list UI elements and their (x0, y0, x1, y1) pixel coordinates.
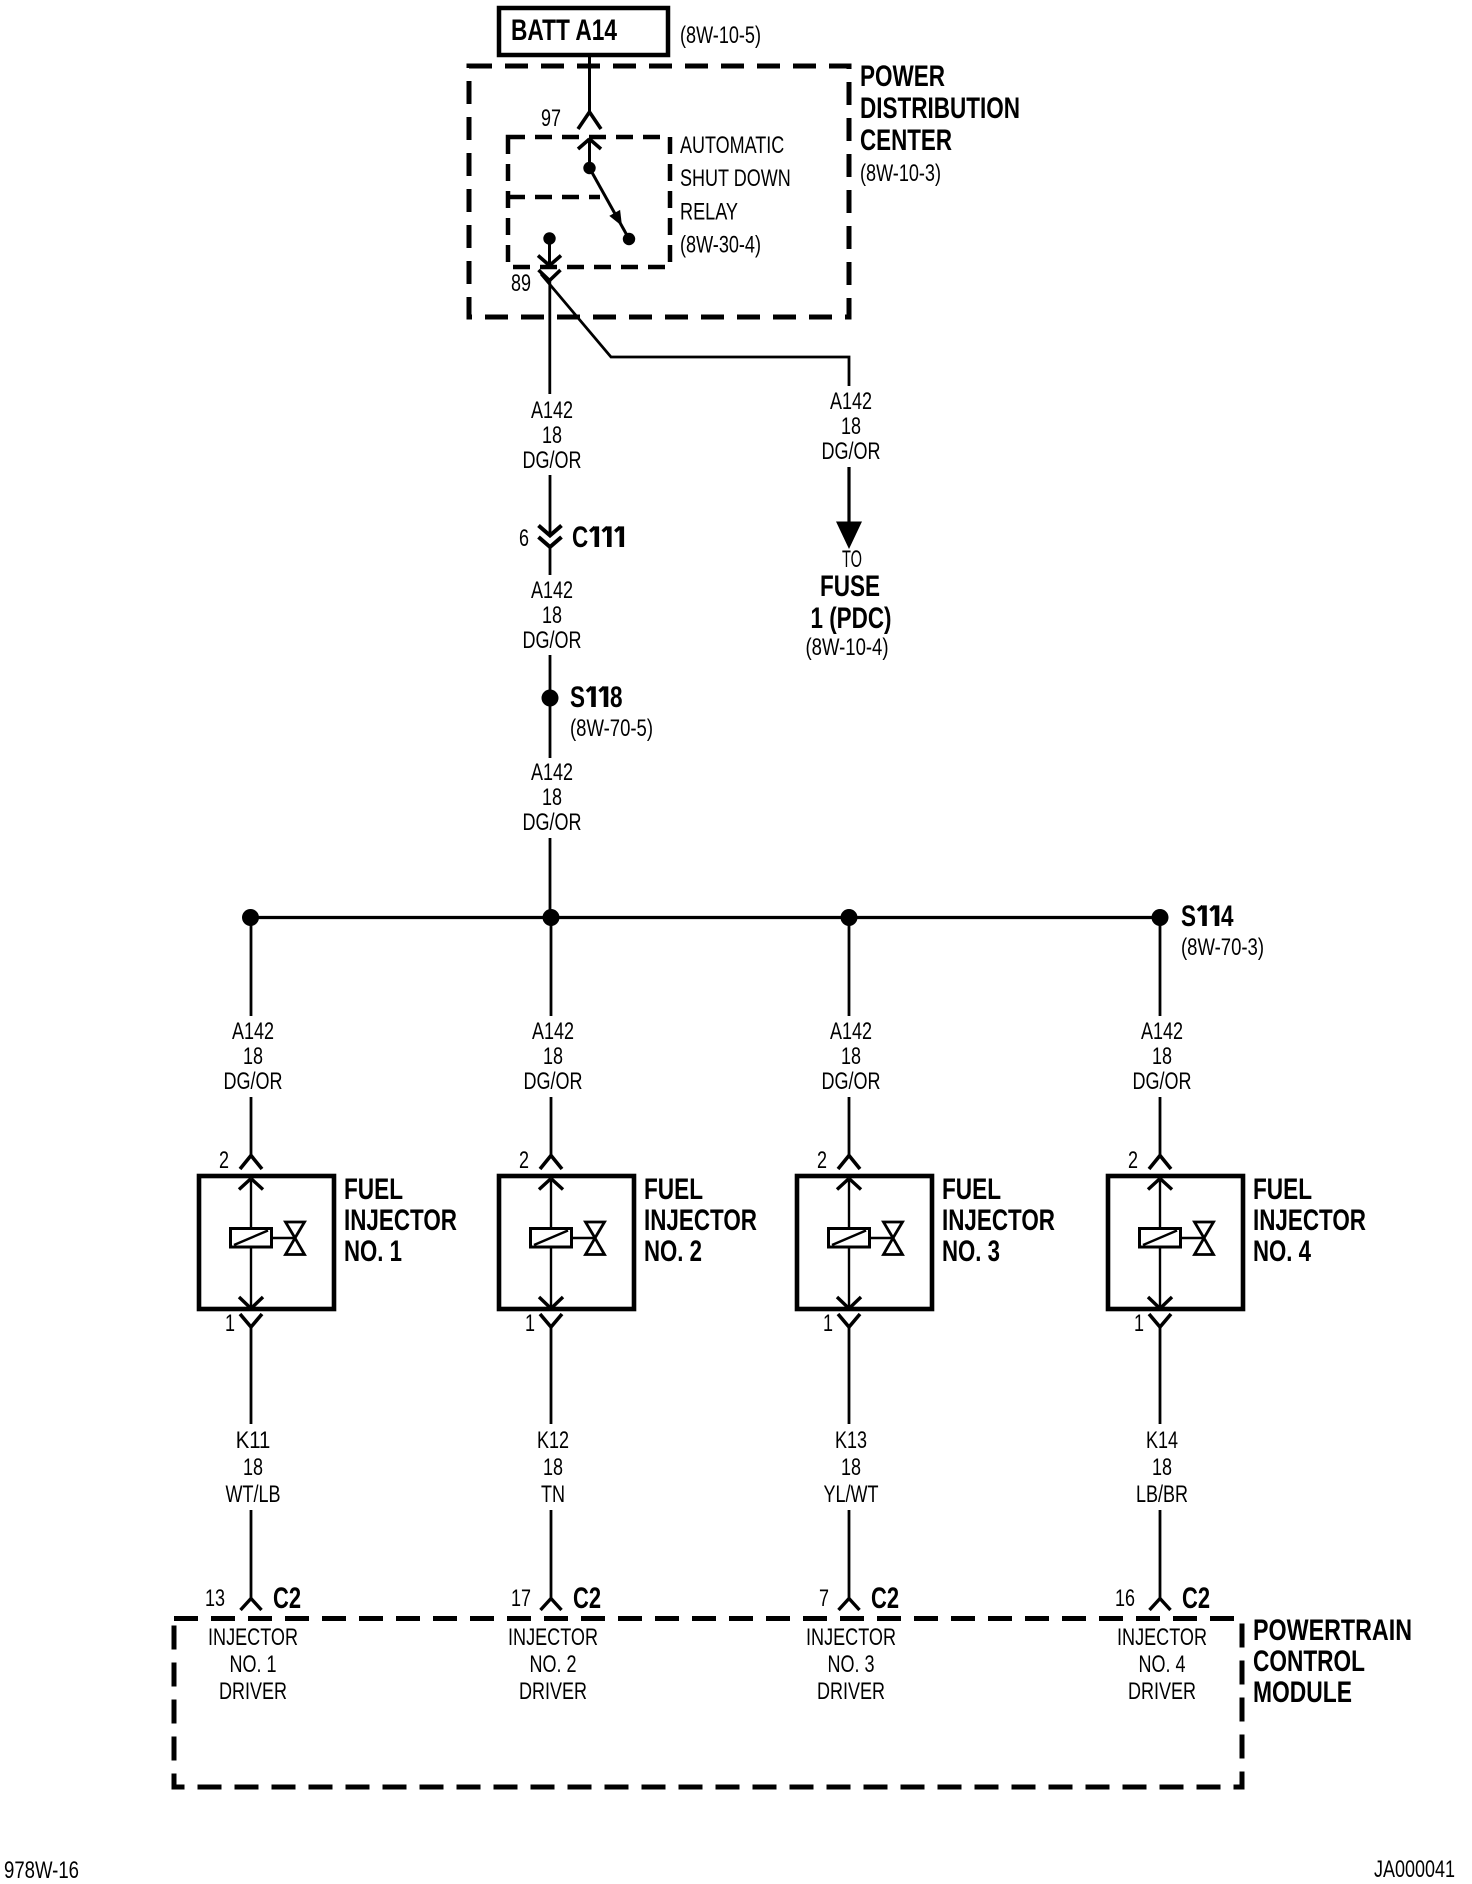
svg-text:NO. 1: NO. 1 (344, 1235, 402, 1268)
relay output terminal to pin 89 (arrow down) (538, 232, 561, 265)
arrow to fuse 1 (PDC) (836, 467, 862, 549)
injector 3 nozzle valve symbol (870, 1222, 903, 1255)
wire label A142 18 DG/OR (injector 2 branch) (524, 1018, 583, 1095)
svg-text:INJECTOR: INJECTOR (344, 1204, 457, 1237)
fuel injector 1 box (199, 1176, 334, 1309)
page number 978W-16 (4, 1857, 79, 1884)
fuel injector 2 box (499, 1176, 634, 1309)
svg-text:DG/OR: DG/OR (224, 1068, 283, 1095)
wire label K14 18 LB/BR (1136, 1427, 1188, 1508)
svg-text:(8W-30-4): (8W-30-4) (680, 232, 761, 259)
splice S118 (542, 681, 623, 714)
svg-text:(8W-10-5): (8W-10-5) (680, 22, 761, 49)
svg-text:FUEL: FUEL (344, 1173, 403, 1206)
svg-text:S: S (1181, 900, 1196, 933)
label INJECTOR NO. 3 DRIVER (806, 1624, 896, 1705)
svg-text:NO. 3: NO. 3 (942, 1235, 1000, 1268)
injector 2 internal pin arrow (down) (539, 1247, 563, 1309)
svg-text:NO. 2: NO. 2 (530, 1651, 577, 1678)
svg-text:6: 6 (519, 525, 529, 552)
svg-text:2: 2 (519, 1147, 529, 1174)
injector 2 nozzle valve symbol (572, 1222, 605, 1255)
wire segment to PCM connector C2 pin 17 (550, 1510, 553, 1599)
label INJECTOR NO. 4 DRIVER (1117, 1624, 1207, 1705)
svg-text:NO. 1: NO. 1 (230, 1651, 277, 1678)
svg-text:NO. 4: NO. 4 (1139, 1651, 1186, 1678)
svg-text:A142: A142 (830, 1018, 872, 1045)
svg-text:(8W-10-3): (8W-10-3) (860, 160, 941, 187)
svg-text:POWERTRAIN: POWERTRAIN (1253, 1614, 1412, 1647)
wire segment below S118 (549, 706, 552, 758)
injector 1 nozzle valve symbol (272, 1222, 305, 1255)
svg-text:CENTER: CENTER (860, 124, 952, 157)
svg-text:A142: A142 (232, 1018, 274, 1045)
injector 1 pin 1 connector (female) (225, 1310, 262, 1337)
svg-text:7: 7 (819, 1585, 829, 1612)
svg-text:DRIVER: DRIVER (519, 1678, 587, 1705)
svg-text:1: 1 (823, 1310, 833, 1337)
svg-text:18: 18 (543, 1043, 563, 1070)
svg-text:1: 1 (225, 1310, 235, 1337)
svg-text:A142: A142 (531, 397, 573, 424)
label S114 (8W-70-3) (1181, 900, 1264, 961)
svg-text:TO: TO (842, 546, 862, 573)
wire label A142 18 DG/OR (injector 1 branch) (224, 1018, 283, 1095)
wire segment above C111 (549, 475, 552, 535)
wire A142 bus to injector 4 (1159, 918, 1162, 1017)
svg-text:DRIVER: DRIVER (1128, 1678, 1196, 1705)
svg-text:C: C (572, 521, 588, 554)
svg-text:YL/WT: YL/WT (824, 1481, 879, 1508)
wire K13 from injector 3 (848, 1327, 851, 1424)
injector 4 internal pin arrow (down) (1148, 1247, 1172, 1309)
junction dot col 2 (543, 909, 560, 926)
connector C2 pin 16 (female) (1115, 1582, 1210, 1615)
label FUEL INJECTOR NO. 2 (644, 1173, 757, 1268)
injector 1 internal pin arrow (up) (239, 1179, 263, 1229)
svg-text:DG/OR: DG/OR (523, 809, 582, 836)
wire segment to injector 4 pin 2 (1159, 1097, 1162, 1155)
svg-text:NO. 2: NO. 2 (644, 1235, 702, 1268)
svg-text:18: 18 (543, 1454, 563, 1481)
svg-text:K12: K12 (537, 1427, 569, 1454)
svg-text:A142: A142 (531, 577, 573, 604)
svg-text:FUEL: FUEL (1253, 1173, 1312, 1206)
svg-text:INJECTOR: INJECTOR (644, 1204, 757, 1237)
connector C2 pin 7 (female) (819, 1582, 899, 1615)
relay internal divider (dashed) (508, 195, 600, 200)
wire segment to injector 2 pin 2 (550, 1097, 553, 1155)
reference (8W-70-5) (570, 715, 653, 742)
svg-text:18: 18 (1152, 1043, 1172, 1070)
label INJECTOR NO. 2 DRIVER (508, 1624, 598, 1705)
power distribution center dashed box (469, 66, 849, 317)
svg-text:POWER: POWER (860, 60, 945, 93)
injector 4 pin 2 connector (female) (1128, 1147, 1171, 1174)
injector 2 internal pin arrow (up) (539, 1179, 563, 1229)
svg-text:18: 18 (542, 784, 562, 811)
svg-text:BATT A14: BATT A14 (511, 14, 617, 47)
svg-text:18: 18 (841, 1043, 861, 1070)
powertrain control module dashed box (174, 1619, 1242, 1788)
svg-text:2: 2 (817, 1147, 827, 1174)
svg-text:DISTRIBUTION: DISTRIBUTION (860, 92, 1020, 125)
svg-text:DG/OR: DG/OR (822, 1068, 881, 1095)
reference (8W-10-5) (680, 22, 761, 49)
svg-text:(8W-70-5): (8W-70-5) (570, 715, 653, 742)
svg-text:18: 18 (542, 602, 562, 629)
svg-text:A142: A142 (830, 388, 872, 415)
svg-text:2: 2 (219, 1147, 229, 1174)
wire label A142 18 DG/OR (fuse branch) (822, 388, 881, 465)
injector 1 pin 2 connector (female) (219, 1147, 262, 1174)
svg-text:18: 18 (1152, 1454, 1172, 1481)
wire segment below C111 (549, 547, 552, 575)
svg-text:INJECTOR: INJECTOR (508, 1624, 598, 1651)
wire segment to injector 1 pin 2 (250, 1097, 253, 1155)
relay automatic shut down relay dashed box (508, 137, 670, 267)
injector 3 solenoid coil (829, 1229, 870, 1248)
svg-text:1: 1 (525, 1310, 535, 1337)
svg-text:DG/OR: DG/OR (523, 447, 582, 474)
label POWERTRAIN CONTROL MODULE (1253, 1614, 1412, 1709)
svg-text:AUTOMATIC: AUTOMATIC (680, 132, 784, 159)
wire segment to injector 3 pin 2 (848, 1097, 851, 1155)
svg-text:1: 1 (1134, 1310, 1144, 1337)
wire A142 bus to injector 1 (250, 918, 253, 1017)
svg-text:S: S (570, 681, 585, 714)
svg-text:A142: A142 (1141, 1018, 1183, 1045)
svg-text:K13: K13 (835, 1427, 867, 1454)
svg-text:NO. 4: NO. 4 (1253, 1235, 1311, 1268)
injector 2 pin 1 connector (female) (525, 1310, 562, 1337)
connector C2 pin 17 (female) (511, 1582, 601, 1615)
svg-text:WT/LB: WT/LB (226, 1481, 281, 1508)
svg-text:2: 2 (1128, 1147, 1138, 1174)
wire K14 from injector 4 (1159, 1327, 1162, 1424)
relay switch blade with arrowhead (590, 168, 629, 238)
svg-text:INJECTOR: INJECTOR (208, 1624, 298, 1651)
injector 1 internal pin arrow (down) (239, 1247, 263, 1309)
svg-text:FUSE: FUSE (820, 570, 880, 603)
injector 3 internal pin arrow (down) (837, 1247, 861, 1309)
injector 4 nozzle valve symbol (1181, 1222, 1214, 1255)
svg-text:C2: C2 (573, 1582, 601, 1615)
svg-text:INJECTOR: INJECTOR (806, 1624, 896, 1651)
label TO FUSE 1 (PDC) (8W-10-4) (806, 546, 892, 661)
label FUEL INJECTOR NO. 1 (344, 1173, 457, 1268)
svg-text:FUEL: FUEL (644, 1173, 703, 1206)
wire label A142 18 DG/OR (between C111 and S118) (523, 577, 582, 654)
injector 4 internal pin arrow (up) (1148, 1179, 1172, 1229)
svg-text:18: 18 (841, 413, 861, 440)
svg-text:K11: K11 (236, 1427, 271, 1454)
label INJECTOR NO. 1 DRIVER (208, 1624, 298, 1705)
svg-text:978W-16: 978W-16 (4, 1857, 79, 1884)
label FUEL INJECTOR NO. 4 (1253, 1173, 1366, 1268)
connector C2 pin 13 (female) (205, 1582, 301, 1615)
wire label A142 18 DG/OR (injector 3 branch) (822, 1018, 881, 1095)
svg-text:FUEL: FUEL (942, 1173, 1001, 1206)
svg-text:C2: C2 (871, 1582, 899, 1615)
svg-text:C2: C2 (273, 1582, 301, 1615)
svg-text:A142: A142 (531, 759, 573, 786)
wire label K13 18 YL/WT (824, 1427, 879, 1508)
svg-text:DRIVER: DRIVER (817, 1678, 885, 1705)
injector 1 solenoid coil (231, 1229, 272, 1248)
svg-text:INJECTOR: INJECTOR (1117, 1624, 1207, 1651)
svg-text:97: 97 (541, 105, 561, 132)
connector BATT A14 fused B(+) feed box (499, 8, 668, 55)
drawing number JA000041 (1374, 1856, 1455, 1883)
svg-text:DG/OR: DG/OR (822, 438, 881, 465)
label POWER DISTRIBUTION CENTER (8W-10-3) (860, 60, 1020, 187)
splice bus wire S114 (horizontal) (251, 916, 1161, 919)
svg-text:1 (PDC): 1 (PDC) (811, 602, 892, 635)
wire label A142 18 DG/OR (injector 4 branch) (1133, 1018, 1192, 1095)
wire segment to PCM connector C2 pin 7 (848, 1510, 851, 1599)
svg-text:A142: A142 (532, 1018, 574, 1045)
svg-text:DG/OR: DG/OR (523, 627, 582, 654)
wire A142 bus to injector 2 (550, 918, 553, 1017)
svg-text:(8W-70-3): (8W-70-3) (1181, 934, 1264, 961)
wire A142 main from pin 89 down (548, 281, 551, 395)
svg-text:DG/OR: DG/OR (524, 1068, 583, 1095)
junction dot col 3 (841, 909, 858, 926)
svg-text:17: 17 (511, 1585, 531, 1612)
svg-text:89: 89 (511, 270, 531, 297)
injector 4 pin 1 connector (female) (1134, 1310, 1171, 1337)
injector 3 internal pin arrow (up) (837, 1179, 861, 1229)
wire segment down to splice bus (549, 838, 552, 918)
svg-text:SHUT DOWN: SHUT DOWN (680, 165, 791, 192)
wire label K12 18 TN (537, 1427, 569, 1508)
svg-text:JA000041: JA000041 (1374, 1856, 1455, 1883)
wire segment to PCM connector C2 pin 16 (1159, 1510, 1162, 1599)
wire BATT A14 to pin 97 (588, 57, 591, 112)
svg-text:CONTROL: CONTROL (1253, 1645, 1365, 1678)
svg-text:TN: TN (541, 1481, 565, 1508)
svg-text:(8W-10-4): (8W-10-4) (806, 634, 889, 661)
junction dot col 1 (242, 909, 259, 926)
injector 4 solenoid coil (1140, 1229, 1181, 1248)
wire label A142 18 DG/OR (above bus) (523, 759, 582, 836)
injector 2 pin 2 connector (female) (519, 1147, 562, 1174)
relay common terminal pin (arrow up from pin 97) (578, 139, 601, 174)
injector 3 pin 2 connector (female) (817, 1147, 860, 1174)
svg-text:K14: K14 (1146, 1427, 1178, 1454)
label FUEL INJECTOR NO. 3 (942, 1173, 1055, 1268)
injector 3 pin 1 connector (female) (823, 1310, 860, 1337)
connector C111 pin 6 (double chevron) (519, 521, 622, 554)
svg-text:INJECTOR: INJECTOR (1253, 1204, 1366, 1237)
wire K12 from injector 2 (550, 1327, 553, 1424)
svg-text:18: 18 (841, 1454, 861, 1481)
relay switch contact terminal (lower right) (623, 233, 635, 245)
svg-text:16: 16 (1115, 1585, 1135, 1612)
wire label K11 18 WT/LB (226, 1427, 281, 1508)
svg-text:DRIVER: DRIVER (219, 1678, 287, 1705)
svg-text:DG/OR: DG/OR (1133, 1068, 1192, 1095)
wire segment above S118 (549, 655, 552, 690)
wire A142 bus to injector 3 (848, 918, 851, 1017)
splice S114 dot col 4 (1152, 909, 1169, 926)
svg-text:18: 18 (243, 1043, 263, 1070)
pin 89 connector (female) (511, 270, 561, 297)
svg-text:C2: C2 (1182, 1582, 1210, 1615)
svg-text:18: 18 (243, 1454, 263, 1481)
wire K11 from injector 1 (250, 1327, 253, 1424)
label AUTOMATIC SHUT DOWN RELAY (8W-30-4) (680, 132, 791, 259)
svg-text:LB/BR: LB/BR (1136, 1481, 1188, 1508)
wire segment to PCM connector C2 pin 13 (250, 1510, 253, 1599)
svg-text:RELAY: RELAY (680, 199, 738, 226)
svg-text:NO. 3: NO. 3 (828, 1651, 875, 1678)
wire label A142 18 DG/OR (main, above C111) (523, 397, 582, 474)
svg-text:8: 8 (610, 681, 623, 714)
pin 97 connector (female) (541, 105, 601, 132)
svg-text:18: 18 (542, 422, 562, 449)
svg-text:13: 13 (205, 1585, 225, 1612)
fuel injector 3 box (797, 1176, 932, 1309)
wire branch to fuse 1 (diagonal + horizontal + corner down) (541, 274, 849, 386)
svg-text:4: 4 (1221, 900, 1234, 933)
svg-text:INJECTOR: INJECTOR (942, 1204, 1055, 1237)
svg-text:MODULE: MODULE (1253, 1676, 1352, 1709)
injector 2 solenoid coil (531, 1229, 572, 1248)
fuel injector 4 box (1108, 1176, 1243, 1309)
